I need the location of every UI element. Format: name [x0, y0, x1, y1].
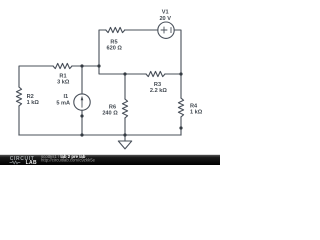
- resistor R4: [178, 98, 183, 117]
- dot I1 bottom rail junction: [80, 133, 83, 136]
- resistor R5: [106, 27, 125, 32]
- wire R6 bottom lead: [124, 118, 126, 135]
- wire top-left from R2 top corner to R1 left: [19, 66, 53, 87]
- dot R4 bottom terminal: [179, 126, 182, 129]
- wire node B down to R3 row: [99, 66, 146, 74]
- svg-text:R1: R1: [59, 74, 66, 80]
- logo resistor squiggle: [10, 161, 21, 164]
- wire bottom rail: [19, 134, 181, 136]
- wire R6 top lead: [124, 74, 126, 99]
- wire I1 bottom lead: [81, 110, 83, 135]
- dot I1 bottom terminal: [80, 114, 83, 117]
- wire I1 top lead: [81, 66, 83, 94]
- dot ground junction: [123, 133, 126, 136]
- svg-text:R6: R6: [109, 104, 116, 110]
- svg-text:1 kΩ: 1 kΩ: [27, 100, 40, 106]
- wire node B up to R5: [99, 30, 106, 66]
- V1 plus sign: [161, 27, 167, 33]
- wire R4 top lead: [180, 74, 182, 98]
- svg-text:LAB: LAB: [26, 160, 37, 165]
- I1 arrowhead: [81, 96, 84, 101]
- footer bar: [0, 155, 220, 165]
- wire R4 bottom lead: [180, 117, 182, 135]
- svg-text:3 kΩ: 3 kΩ: [57, 80, 70, 86]
- svg-text:240 Ω: 240 Ω: [102, 111, 118, 117]
- svg-text:V1: V1: [162, 10, 169, 16]
- I1 arrow shaft: [81, 99, 83, 108]
- svg-text:620 Ω: 620 Ω: [107, 46, 123, 52]
- svg-text:20 V: 20 V: [159, 16, 171, 22]
- wire R2 bottom lead: [18, 106, 20, 135]
- resistor R6: [122, 99, 127, 118]
- node C dot R6 top: [123, 72, 126, 75]
- resistor R1: [53, 63, 72, 68]
- svg-text:http://circuitlab.com/c9zkk5e: http://circuitlab.com/c9zkk5e: [41, 158, 96, 163]
- svg-text:R4: R4: [190, 103, 198, 109]
- wire V1 right down to node D: [174, 30, 181, 74]
- wire R1 right to node B: [72, 65, 99, 67]
- voltage source V1: [158, 22, 174, 38]
- V1 minus bar: [170, 28, 172, 33]
- wire R3 right to node D: [165, 73, 181, 75]
- current source I1: [74, 94, 90, 110]
- wire R5 right to V1: [125, 29, 158, 31]
- node dot I1 top junction: [80, 64, 83, 67]
- svg-text:I1: I1: [63, 94, 68, 100]
- node B dot: [97, 64, 100, 67]
- resistor R3: [146, 71, 165, 76]
- ground: [124, 135, 126, 141]
- svg-text:1 kΩ: 1 kΩ: [190, 110, 203, 116]
- svg-text:2.2 kΩ: 2.2 kΩ: [150, 88, 167, 94]
- svg-text:5 mA: 5 mA: [56, 101, 70, 107]
- node D dot R4 top: [179, 72, 182, 75]
- resistor R2: [16, 87, 21, 106]
